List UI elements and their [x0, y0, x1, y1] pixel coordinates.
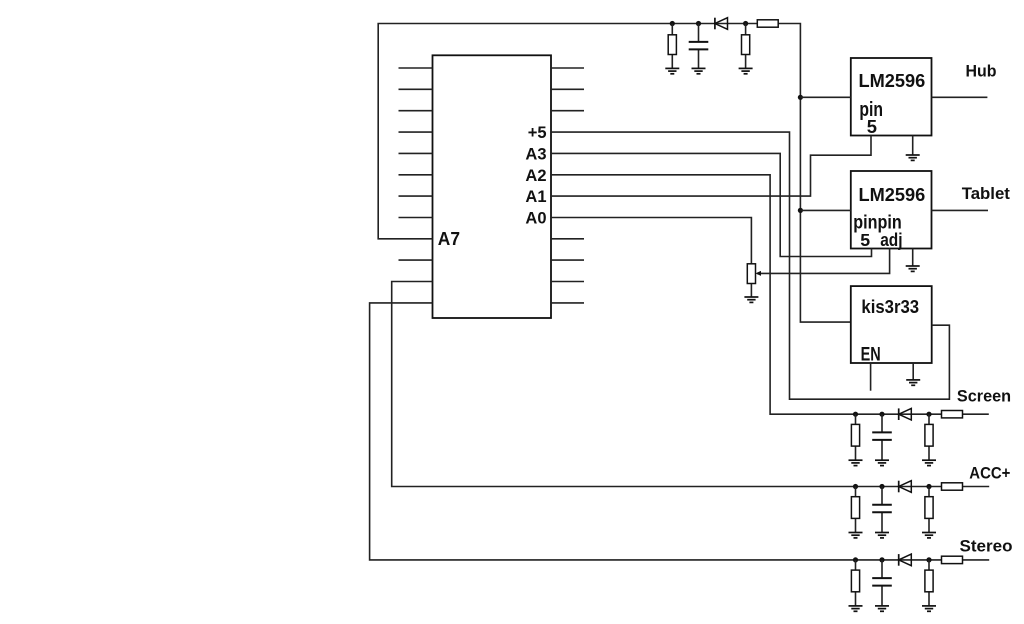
- wire net A7 / input power rail: [378, 24, 851, 323]
- ground under Stereo output shunt resistor: [922, 606, 936, 611]
- wire power to U3 input: [800, 209, 850, 211]
- resistor R Stereo output shunt: [925, 560, 933, 606]
- junction node Screen rail at output R: [926, 412, 931, 417]
- wire net +5 to U4 enable loop: [551, 132, 949, 399]
- junction node on top rail at C1: [696, 21, 701, 26]
- svg-text:Stereo: Stereo: [960, 536, 1013, 555]
- regulator U2 LM2596 (Hub): [851, 58, 932, 136]
- svg-text:Tablet: Tablet: [962, 184, 1011, 203]
- regulator U4 kis3r33: [851, 286, 932, 363]
- svg-text:A3: A3: [525, 146, 546, 164]
- junction node Stereo rail at R: [853, 557, 858, 562]
- regulator U3 LM2596 (Tablet): [851, 171, 932, 249]
- junction node on top rail at R1: [670, 21, 675, 26]
- ground under R2: [739, 68, 753, 73]
- resistor R Screen output shunt: [925, 414, 933, 460]
- svg-text:Hub: Hub: [966, 61, 997, 80]
- svg-text:EN: EN: [861, 345, 881, 366]
- wire net ACC+ rail: [392, 282, 990, 487]
- wire net Stereo rail: [370, 303, 990, 560]
- junction node ACC+ rail at R: [853, 484, 858, 489]
- ground under Screen shunt resistor: [849, 460, 863, 465]
- ground under RV1: [744, 297, 758, 302]
- capacitor C1: [689, 24, 709, 69]
- resistor R2: [742, 24, 750, 69]
- wire U3 ground pin: [912, 249, 914, 267]
- diode D Stereo: [899, 554, 912, 566]
- resistor R Stereo series: [942, 556, 963, 563]
- junction node power to U2: [798, 95, 803, 100]
- junction node ACC+ rail at output R: [926, 484, 931, 489]
- resistor R Screen shunt: [851, 414, 859, 460]
- wire U2 output to Hub: [932, 96, 988, 98]
- wire U4 EN stub: [870, 363, 872, 391]
- svg-text:A0: A0: [525, 210, 546, 228]
- ground under ACC+ shunt resistor: [849, 533, 863, 538]
- junction node Stereo rail at output R: [926, 557, 931, 562]
- junction node Stereo rail at C: [879, 557, 884, 562]
- wire net A2 to Screen rail: [551, 175, 989, 414]
- svg-text:5: 5: [867, 116, 877, 137]
- wire net A3 to U3 pin 5: [551, 153, 872, 256]
- IC U1 right pin stubs: [551, 68, 584, 303]
- svg-text:5: 5: [860, 230, 870, 250]
- svg-text:adj: adj: [880, 229, 902, 250]
- ground under Stereo shunt resistor: [849, 606, 863, 611]
- wire power to U2 input: [800, 96, 850, 98]
- junction node on top rail at R2: [743, 21, 748, 26]
- capacitor C Stereo: [872, 560, 892, 606]
- arrowhead RV1 wiper: [755, 271, 761, 276]
- svg-text:A2: A2: [525, 167, 546, 185]
- junction node power to U3: [798, 208, 803, 213]
- resistor R ACC+ output shunt: [925, 487, 933, 533]
- IC U1 main controller box: [433, 55, 552, 318]
- capacitor C Screen: [872, 414, 892, 460]
- svg-text:kis3r33: kis3r33: [861, 297, 919, 317]
- potentiometer RV1: [747, 264, 755, 297]
- wire U3 adj to RV1 wiper: [757, 249, 890, 274]
- svg-text:Screen: Screen: [957, 387, 1011, 406]
- ground under U3: [906, 266, 920, 271]
- wire net A1 to U2 pin 5: [551, 136, 871, 197]
- svg-text:A7: A7: [438, 228, 460, 249]
- ground under Stereo capacitor: [875, 606, 889, 611]
- svg-text:LM2596: LM2596: [859, 71, 926, 91]
- IC U1 left pin stubs: [399, 68, 433, 260]
- ground under U4: [906, 380, 920, 385]
- resistor R Screen series: [942, 411, 963, 418]
- resistor R Stereo shunt: [851, 560, 859, 606]
- ground under U2: [906, 155, 920, 160]
- wire net A0 to potentiometer: [551, 218, 751, 264]
- svg-text:+5: +5: [528, 124, 547, 142]
- resistor R ACC+ series: [942, 483, 963, 490]
- svg-text:A1: A1: [525, 188, 546, 206]
- ground under Screen output shunt resistor: [922, 460, 936, 465]
- ground under R1: [665, 68, 679, 73]
- junction node Screen rail at C: [879, 412, 884, 417]
- ground under ACC+ output shunt resistor: [922, 533, 936, 538]
- wire U4 ground pin: [912, 363, 914, 380]
- wire U2 ground pin: [912, 136, 914, 156]
- resistor R3: [757, 20, 778, 27]
- diode D1: [715, 18, 728, 30]
- capacitor C ACC+: [872, 487, 892, 533]
- ground under C1: [692, 68, 706, 73]
- svg-text:LM2596: LM2596: [859, 185, 926, 205]
- svg-text:ACC+: ACC+: [969, 463, 1010, 482]
- diode D ACC+: [899, 481, 912, 493]
- resistor R1: [668, 24, 676, 69]
- junction node ACC+ rail at C: [879, 484, 884, 489]
- ground under Screen capacitor: [875, 460, 889, 465]
- ground under ACC+ capacitor: [875, 533, 889, 538]
- diode D Screen: [899, 408, 912, 420]
- wire U3 output to Tablet: [932, 209, 989, 211]
- junction node Screen rail at R: [853, 412, 858, 417]
- resistor R ACC+ shunt: [851, 487, 859, 533]
